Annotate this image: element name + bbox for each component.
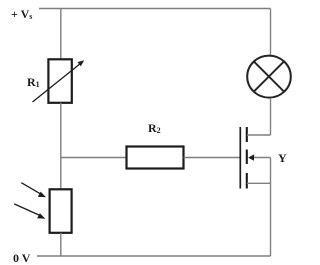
wire body stub — [254, 157, 271, 159]
wire source stub — [247, 182, 271, 184]
node Y label — [278, 152, 287, 164]
node junction to R2 — [61, 157, 127, 159]
wire LDR to 0V rail — [60, 233, 62, 256]
wire source to 0V rail — [270, 183, 272, 256]
wire lamp top drop — [270, 9, 272, 56]
transistor Y (n-channel MOSFET) — [240, 127, 254, 189]
wire body drop — [270, 158, 272, 184]
wire R2 to gate — [184, 157, 241, 159]
wire lamp to drain — [270, 98, 272, 135]
wire middle left vertical — [60, 103, 62, 190]
resistor R1 (variable) — [33, 59, 85, 103]
value label R1 — [27, 76, 40, 89]
wire top rail +Vs — [39, 8, 271, 10]
resistor R2 — [127, 147, 184, 169]
LDR sensor — [14, 183, 71, 233]
wire drain stub — [247, 134, 271, 136]
node 0V label — [13, 252, 30, 264]
wire bottom rail 0V — [37, 255, 271, 257]
value label R2 — [148, 122, 161, 135]
lamp — [247, 56, 291, 98]
node +Vs label — [11, 8, 32, 21]
wire left branch top — [60, 9, 62, 61]
